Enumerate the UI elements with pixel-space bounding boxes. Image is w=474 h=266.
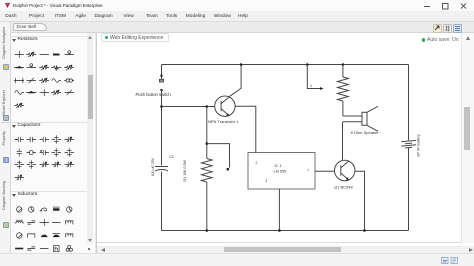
wire collector riser (230, 65, 241, 97)
svg-text:R1 15K 0.5W: R1 15K 0.5W (183, 160, 187, 182)
node hook junction (206, 142, 209, 145)
svg-text:100 uF 25V: 100 uF 25V (151, 157, 155, 176)
wire Q1 collector (342, 122, 344, 161)
svg-text:7: 7 (307, 169, 309, 173)
node bottom Q1 (363, 229, 366, 232)
left vertical sidebar (0, 22, 11, 253)
wire Q1 emitter (355, 171, 365, 230)
speaker 8 Ohm Speaker (343, 106, 378, 131)
menu bar (0, 11, 474, 22)
wire left rail lower (161, 172, 163, 231)
wire net1 (307, 65, 320, 89)
wire left rail upper (161, 65, 163, 80)
splitter (95, 33, 97, 253)
wire hook to pin (207, 144, 230, 168)
wire emitter to IC (235, 106, 256, 152)
svg-text:Push button switch: Push button switch (136, 92, 172, 97)
svg-text:LM 555: LM 555 (274, 169, 287, 173)
node net1 arrow (320, 87, 324, 90)
autosave (422, 38, 426, 42)
wire R2 lower (342, 101, 344, 116)
wire IC output down (278, 189, 280, 231)
transistor NPN Transistor 1 (215, 96, 235, 116)
node collector top (240, 63, 243, 66)
node hook end (227, 168, 230, 171)
svg-text:BT 9V Battery: BT 9V Battery (417, 134, 421, 157)
transistor Q1 BC548 (335, 160, 355, 180)
h scrollbar (97, 246, 474, 253)
resistor R1 (202, 159, 213, 183)
capacitor C1 (155, 167, 168, 172)
svg-text:2: 2 (256, 161, 258, 165)
wire left rail mid (161, 90, 163, 165)
resistor R2 (338, 77, 349, 101)
wire base (162, 106, 215, 108)
wire top rail (162, 64, 409, 66)
status bar (0, 253, 474, 266)
push button switch SW1 (159, 75, 163, 92)
svg-text:1: 1 (310, 84, 312, 88)
node R1 top junction (206, 105, 209, 108)
node base junction left (160, 105, 163, 108)
wire IC to Q1 base (315, 170, 335, 172)
svg-text:8 Ohm Speaker: 8 Ohm Speaker (351, 130, 380, 135)
wire right rail upper (408, 65, 410, 141)
svg-text:IC 1: IC 1 (275, 164, 282, 168)
wire R1 lower (206, 182, 208, 231)
canvas v scrollbar (461, 33, 474, 243)
node net1 junction (306, 63, 309, 66)
svg-text:3: 3 (265, 179, 267, 183)
wire R2 upper (342, 65, 344, 78)
svg-text:Q1 BC548: Q1 BC548 (334, 185, 353, 190)
battery BT 9V Battery (401, 140, 416, 148)
wire R1 upper (206, 107, 208, 159)
svg-text:C1: C1 (169, 155, 174, 159)
web editing chip (101, 33, 169, 42)
op-amp U1 IC 1 LM 555 (248, 153, 315, 190)
svg-text:NPN Transistor 1: NPN Transistor 1 (208, 119, 239, 124)
title bar (0, 0, 474, 11)
wire right rail lower (408, 148, 410, 231)
wire bottom rail (162, 230, 409, 232)
node R2 top (342, 63, 345, 66)
tab row (0, 22, 474, 33)
node bottom IC (278, 229, 281, 232)
node bottom R1 (206, 229, 209, 232)
